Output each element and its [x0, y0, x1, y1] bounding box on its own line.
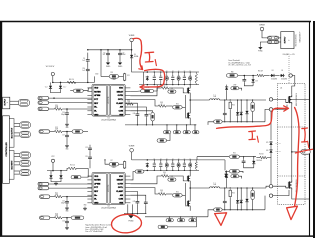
wire lower clampB dn — [240, 204, 242, 210]
diode upper clampA — [236, 111, 239, 116]
resistor bottom row 1 — [166, 219, 173, 222]
connector supply2 pad1 — [268, 36, 279, 39]
svg-text:2.0: 2.0 — [161, 104, 163, 106]
wire R63 right — [239, 171, 243, 173]
wire U2 COM down b — [127, 204, 129, 213]
wire mid COM rail — [125, 124, 196, 126]
wire R20 right — [83, 131, 88, 133]
red I1 mid bottom bar — [249, 138, 255, 140]
node lower branch 252.6 — [252, 187, 253, 188]
node upper t3 — [172, 71, 173, 72]
wire Qlow drain — [189, 188, 191, 199]
wire z3 up — [253, 157, 255, 160]
connector MCU INPUT pads group2 — [20, 160, 31, 166]
wire M1 drain up — [292, 83, 295, 94]
wire source terminal down chain — [270, 111, 272, 140]
svg-text:GND: GND — [84, 205, 87, 207]
svg-text:1uH: 1uH — [213, 96, 216, 98]
resistor lowerR6 — [189, 163, 192, 167]
wire VDRIVE branch to caps — [87, 53, 89, 58]
node R18 out — [66, 217, 68, 219]
svg-text:Q1: Q1 — [280, 88, 282, 90]
wire R19 node down — [66, 132, 68, 134]
resistor R63 — [229, 170, 239, 173]
wire midpad to R19 — [50, 131, 55, 133]
red circle around PGND — [111, 213, 142, 233]
wire upper zpa — [246, 100, 248, 110]
resistor R22 10k lower — [123, 161, 125, 169]
wire upper clamp rail — [222, 121, 265, 123]
node lower a1 — [147, 159, 149, 161]
node lower clamp 247.0 — [246, 209, 247, 210]
resistor R61 2R — [257, 74, 264, 77]
wire L to gate terminal — [220, 99, 266, 101]
svg-text:UCC21750: UCC21750 — [108, 96, 110, 104]
node upper out — [189, 99, 191, 101]
ferrite bead FB1 START — [109, 75, 118, 79]
svg-text:10R: 10R — [189, 75, 191, 77]
ground below C17 — [65, 144, 69, 150]
connector MCU INPUT pads group3 — [20, 169, 31, 175]
red scribble through SW pad — [295, 149, 312, 153]
wire C20 dn — [89, 160, 91, 168]
transistor M1 power MOSFET — [286, 95, 292, 105]
svg-text:1uF: 1uF — [82, 70, 85, 72]
resistor lowerR2 — [165, 163, 168, 167]
wire z2 dn — [252, 83, 254, 85]
svg-text:10R: 10R — [166, 75, 168, 77]
svg-text:R56: R56 — [232, 193, 235, 195]
wire lower aux rail — [197, 156, 229, 158]
wire IN+2 to U2 — [49, 183, 92, 185]
wire VCC down — [52, 76, 54, 83]
wire C16 to gnd — [66, 224, 68, 226]
wire gate terminal lower to M2 — [273, 186, 289, 188]
wire VDRIVE down through diode — [131, 50, 133, 54]
wire lower zpa — [246, 188, 248, 198]
red label I1 mid — [249, 131, 259, 142]
svg-text:DNP: DNP — [233, 84, 236, 86]
wire upper cclamp dn — [224, 116, 226, 121]
svg-text:VDD: VDD — [94, 88, 99, 90]
diode D14 — [224, 173, 227, 178]
node IN+ junction — [53, 97, 55, 99]
node upper clamp 224.8 — [224, 121, 225, 122]
diode upper clampB — [240, 111, 243, 116]
wire R33 up to rail — [154, 85, 158, 91]
wire lower node to terminal fix — [266, 186, 269, 188]
node upper t4 — [178, 71, 179, 72]
svg-text:GND: GND — [94, 114, 99, 116]
wire TVS2 stub — [60, 82, 62, 84]
node lower branch 241.2 — [241, 187, 242, 188]
capacitor C11 1uF — [106, 52, 110, 57]
resistor lower gate high 2.0 — [161, 175, 169, 178]
node fb2 feed — [104, 159, 105, 160]
wire U1 AIN stub — [130, 107, 146, 113]
node upper branch 224.8 — [224, 99, 225, 100]
resistor lower sense pill — [214, 208, 223, 211]
svg-text:GND: GND — [65, 127, 68, 129]
op-amp U1 gate driver UCC21750 — [87, 84, 130, 121]
block MCU OUTPUT — [9, 119, 14, 148]
wire gate bus vertical — [184, 183, 186, 205]
wire vcc2 to R13 — [67, 168, 68, 170]
wire R19 right — [62, 131, 72, 133]
node lower b3 — [172, 170, 173, 171]
resistor upperR2 — [165, 76, 168, 80]
terminal VDRIVE lower — [129, 146, 135, 152]
wire mcu in g2a — [14, 161, 20, 163]
node bottom rail 180.7 — [180, 216, 181, 217]
terminal gate upper — [269, 98, 272, 101]
wire upper cclamp up — [224, 100, 226, 112]
svg-text:1uF: 1uF — [172, 162, 174, 164]
wire C40 down — [136, 117, 138, 125]
svg-text:RSTEN: RSTEN — [94, 91, 101, 93]
wire pad to R16 — [49, 108, 55, 110]
resistor lower Rclamp — [229, 189, 231, 197]
red arrow outline bottom middle — [215, 213, 227, 226]
node VCC rail junction b — [60, 82, 62, 84]
wire node to L — [190, 99, 209, 101]
wire upper varistor up — [252, 100, 254, 102]
inductor lower L 1uH — [210, 187, 220, 188]
ground stub U2 — [83, 207, 87, 210]
wire c12 drop — [119, 50, 121, 52]
svg-text:100R: 100R — [55, 194, 58, 196]
wire mid drop 4 — [194, 125, 196, 131]
capacitor C9 1uF — [86, 58, 90, 63]
terminal VDRIVE supply2 — [259, 24, 265, 30]
node mid rail 137.4 — [137, 124, 138, 125]
wire D16 down corner — [267, 154, 271, 158]
wire C46 dn — [244, 164, 254, 168]
wire bottom lone link — [168, 217, 197, 227]
capacitor upperC1 — [160, 77, 162, 79]
svg-text:C17: C17 — [62, 134, 65, 136]
wire bottom drop 1 — [168, 217, 170, 219]
diode upper zener pair a — [245, 110, 248, 115]
power ground below C12 — [118, 61, 123, 68]
wire OUTL to Rgl — [130, 188, 158, 194]
resistor mid row 1 — [163, 131, 170, 134]
capacitor C19 — [88, 146, 92, 151]
svg-text:1uF: 1uF — [82, 60, 85, 62]
wire boost diode top — [226, 85, 228, 86]
red arrowhead back to DESAT resistor — [140, 85, 144, 89]
ferrite bead FB3 — [71, 216, 84, 219]
wire upper clampA up — [237, 100, 239, 111]
wire upper clamp to source terminal — [265, 109, 269, 121]
wire RT1 down — [152, 121, 154, 125]
svg-text:C42: C42 — [133, 201, 136, 203]
node upper a1 — [147, 71, 149, 73]
svg-text:R58 1K: R58 1K — [259, 153, 263, 155]
svg-text:C37: C37 — [110, 160, 113, 162]
wire Qlow source to bottom rail — [189, 120, 191, 125]
red arrow outline lower right — [287, 206, 298, 219]
svg-text:D15: D15 — [266, 142, 269, 144]
capacitor C40 — [136, 112, 140, 117]
node upper branch 241.2 — [241, 99, 242, 100]
capacitor upperC0 — [153, 77, 155, 79]
svg-text:2.49k: 2.49k — [127, 102, 131, 104]
wire pgnd rail — [124, 213, 146, 215]
svg-text:1uF: 1uF — [183, 162, 185, 164]
svg-text:GND: GND — [94, 202, 99, 204]
red label I lower right — [302, 128, 309, 148]
wire lower clampA up — [237, 188, 239, 199]
node SW tap — [291, 151, 293, 153]
wire DESAT to R33 — [130, 90, 140, 93]
resistor lower end vertical zigzag — [195, 161, 197, 169]
ferrite mid lone pill — [157, 139, 167, 142]
wire desat row a — [238, 75, 257, 77]
connector IN+ pad — [38, 96, 49, 99]
resistor lowerR4 — [177, 163, 180, 167]
svg-text:10R: 10R — [166, 162, 168, 164]
connector RST pad — [38, 107, 49, 111]
node vcc2 b — [60, 170, 62, 172]
resistor mid row 2 — [173, 131, 180, 134]
wire Qlow source to bottom rail — [189, 208, 191, 211]
terminal VCC lower — [51, 156, 55, 162]
wire upper clampB dn — [240, 116, 242, 122]
sheet frame right border — [309, 21, 311, 236]
resistor upper sense pill — [214, 120, 223, 123]
block CONTROLLER — [3, 116, 10, 184]
svg-text:APWM: APWM — [94, 94, 100, 97]
resistor lower gate pull — [173, 194, 183, 197]
wire start row b — [119, 76, 124, 78]
wire VCC2 rail — [47, 170, 67, 172]
svg-text:PGND: PGND — [129, 221, 135, 223]
svg-text:1uF: 1uF — [172, 75, 174, 77]
svg-text:330pF: 330pF — [61, 114, 65, 116]
inductor upper L 1uH — [210, 99, 220, 100]
wire lower aux drop — [196, 157, 198, 160]
svg-text:UCC21750QDWRQ1: UCC21750QDWRQ1 — [101, 119, 116, 121]
red I right stem — [303, 129, 306, 142]
wire boost diode bot — [226, 179, 228, 188]
node upper branch 237.6 — [237, 99, 238, 100]
resistor upper end vertical zigzag — [195, 73, 197, 83]
svg-text:VDD: VDD — [119, 88, 124, 90]
svg-text:OUTH: OUTH — [118, 183, 124, 185]
wire upper rclamp dn — [229, 110, 231, 122]
resistor R62 — [229, 155, 239, 158]
wire bottom VEE rail — [145, 216, 208, 218]
node upper b4 — [178, 84, 179, 85]
resistor upper gate low 2.0 — [158, 105, 166, 108]
wire mcu out g1a — [14, 123, 20, 125]
node upper t1 — [160, 71, 161, 72]
resistor R60 desat series — [226, 74, 237, 78]
wire R14 to U1 VDD — [83, 88, 92, 91]
wire lone pill stub — [167, 134, 170, 141]
node R16 out — [66, 108, 68, 110]
wire mid drop 1 — [166, 125, 168, 131]
wire vdd2 caps top — [89, 145, 91, 147]
wire boost pill stub — [239, 176, 242, 178]
wire mcu in g2b — [14, 164, 20, 166]
svg-text:1N4448W: 1N4448W — [275, 143, 281, 145]
svg-text:DESAT: DESAT — [117, 90, 124, 93]
wire lower clampB up — [240, 188, 242, 199]
svg-text:APWM: APWM — [94, 182, 100, 185]
red annotation current loop from VDRIVE — [133, 38, 142, 68]
connector RST pad lower — [40, 195, 50, 198]
diode D8 1N4448W — [270, 74, 275, 77]
node VCC rail junction c — [87, 82, 89, 84]
wire bottom drop 2 — [180, 217, 182, 219]
wire Qh source to node — [189, 95, 191, 100]
wire R58 left — [256, 157, 260, 159]
terminal gate lower — [269, 185, 272, 188]
wire fb2 stub — [119, 163, 124, 165]
wire bottom drop 3 — [191, 217, 193, 219]
svg-text:MCU INPUT: MCU INPUT — [12, 160, 14, 169]
wire desat row b — [264, 75, 270, 77]
capacitor C43 — [144, 200, 148, 205]
node lower b4 — [178, 170, 179, 171]
red annotation loop through components — [142, 69, 165, 87]
svg-text:DESAT: DESAT — [117, 179, 124, 182]
diode D12 TVS — [59, 174, 62, 179]
svg-text:C20: C20 — [85, 156, 88, 158]
wire mid drop 2 — [176, 125, 178, 131]
svg-text:VDRIVE: VDRIVE — [129, 146, 135, 148]
capacitor C12 100nF — [118, 52, 122, 57]
svg-text:100nF: 100nF — [122, 54, 126, 56]
wire R14 left — [70, 90, 73, 92]
svg-text:C15: C15 — [62, 201, 65, 203]
terminal VCC 3.3V — [46, 66, 55, 75]
node VCC rail junction — [52, 82, 54, 84]
red annotation long current path — [217, 108, 286, 128]
red I right subscript — [308, 141, 309, 147]
node lower clamp 241.2 — [241, 209, 242, 210]
capacitor C17 — [65, 134, 69, 139]
node rail c12 — [119, 49, 121, 51]
svg-text:MGJ2D152005SC: MGJ2D152005SC — [296, 33, 298, 46]
node lower b1 — [160, 170, 161, 171]
svg-text:1uF: 1uF — [153, 162, 155, 164]
ground below C16 — [65, 226, 69, 229]
svg-text:10R: 10R — [177, 162, 179, 164]
wire bus to SW pad — [292, 151, 301, 153]
wire upper return rail — [139, 84, 199, 86]
sheet frame left edge band — [0, 21, 2, 236]
wire Rgl to gate pill — [166, 193, 173, 195]
wire tvs2 bottoms — [51, 179, 61, 181]
node bottom rail 169.3 — [169, 216, 170, 217]
capacitor upperC5 — [183, 77, 185, 79]
resistor R10 2.0 — [67, 81, 76, 84]
svg-text:U1: U1 — [108, 117, 110, 119]
svg-text:15V: 15V — [255, 80, 257, 82]
wire vdrive to upper rail — [132, 59, 144, 72]
node upper b5 — [184, 84, 185, 85]
ground below C15 — [65, 206, 69, 212]
wire VDRIVE2 stem — [131, 152, 133, 160]
wire lower sense pill left — [208, 210, 214, 217]
svg-text:1uH: 1uH — [213, 184, 216, 186]
svg-text:IN-: IN- — [94, 110, 97, 112]
node lower branch 237.6 — [237, 187, 238, 188]
diode D16 1N4448W — [269, 149, 272, 154]
svg-text:CONTROLLER: CONTROLLER — [6, 142, 8, 157]
capacitor C16 — [65, 220, 69, 225]
wire rail left end drop — [143, 72, 145, 85]
resistor upper Rclamp — [229, 101, 231, 109]
wire pads to supply2 b — [279, 41, 281, 43]
wire c12 to pgnd — [119, 56, 121, 61]
wire vdrive supply2 down — [262, 31, 268, 38]
node pgnd a — [127, 213, 128, 214]
connector IN- pad — [38, 101, 49, 104]
wire boost diode top — [226, 170, 228, 173]
resistor R17 100R — [55, 195, 63, 198]
wire R18 node down — [66, 218, 68, 220]
svg-text:1N4448W: 1N4448W — [271, 79, 278, 81]
node upper t5 — [184, 71, 185, 72]
wire C9 to C10 — [87, 63, 89, 68]
wire c11 drop — [107, 50, 109, 52]
svg-text:100R: 100R — [55, 128, 58, 130]
svg-text:R45: R45 — [171, 176, 174, 178]
wire M1 drain to border — [292, 98, 310, 100]
svg-text:1: 1 — [7, 102, 9, 103]
node vdrive rail — [131, 49, 133, 51]
transistor M2 power MOSFET — [286, 180, 292, 190]
resistor R14 to VDD — [73, 89, 83, 92]
wire mcu out g1b — [14, 126, 20, 128]
svg-text:R56: R56 — [232, 105, 235, 107]
svg-text:RSTEN: RSTEN — [94, 180, 101, 182]
wire desat row c — [275, 75, 279, 77]
terminal source upper — [269, 108, 272, 111]
svg-text:R60: R60 — [231, 71, 234, 73]
svg-text:C9: C9 — [83, 58, 85, 60]
svg-text:OUTH: OUTH — [118, 95, 124, 97]
capacitor C41 — [145, 113, 149, 118]
wire boost diode bot — [226, 91, 228, 100]
node bottom rail 192.1 — [192, 216, 193, 217]
note desat threshold text — [228, 59, 251, 66]
node pgnd b — [132, 213, 133, 214]
wire U2 COM down a — [132, 204, 134, 213]
node desat b — [252, 75, 254, 77]
wire Qh drain to rail — [189, 170, 191, 174]
node lower branch 230.2 — [230, 187, 231, 188]
wire C46 up — [243, 157, 245, 160]
svg-text:VDRIVE: VDRIVE — [129, 35, 135, 37]
wire lower varistor dn — [252, 200, 254, 210]
wire start row a — [101, 76, 109, 78]
wire U2 CLAMP stub — [130, 191, 137, 199]
svg-text:VDRIVE: VDRIVE — [259, 24, 265, 26]
node mid rail 152.6 — [152, 124, 153, 125]
svg-text:R61 2R: R61 2R — [258, 71, 263, 73]
node upper b3 — [172, 84, 173, 85]
node lower t5 — [184, 159, 185, 160]
red I1 mid top bar — [249, 130, 256, 133]
svg-text:C41: C41 — [148, 114, 151, 116]
wire Rgh to Q1 gate — [169, 88, 185, 93]
resistor mid row 3 — [183, 131, 190, 134]
